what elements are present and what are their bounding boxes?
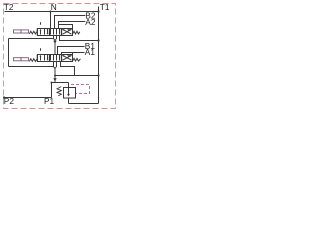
valve V2 right box cross (63, 29, 72, 34)
relief valve spring (57, 87, 61, 96)
wire relief junction horizontal (52, 82, 69, 84)
valve V2 left box arrows (41, 29, 48, 35)
valve V2 (upper spool) (37, 22, 80, 35)
wire valve2 centre to relief junction (54, 69, 56, 83)
svg-text:N: N (51, 2, 57, 12)
wire relief inlet drop (68, 83, 70, 88)
svg-text:A2: A2 (85, 17, 96, 27)
junction dots (3, 10, 100, 98)
wire N riser to valve 1 P port (50, 12, 52, 29)
valve V1 cross arrowheads (67, 55, 70, 57)
wire valve1 tank out to T1 riser (60, 36, 99, 41)
wire A1 port line (62, 53, 85, 55)
valve V1 left spring (29, 59, 37, 62)
wire A2 port line (59, 22, 86, 29)
svg-text:T2: T2 (4, 2, 14, 12)
wire P2 bottom line (4, 97, 52, 99)
valve V2 left box tick (40, 22, 42, 25)
relief valve internal arrow (68, 88, 70, 95)
valve V2 lever actuator (14, 30, 29, 33)
svg-text:A1: A1 (85, 47, 96, 57)
wire left gallery valve1 (9, 38, 54, 40)
wire B1 port line (58, 47, 85, 55)
valve V1 bridge to right box corner (72, 53, 74, 55)
flow arrow to relief junction (53, 78, 56, 81)
pilot line (dashed) (71, 85, 90, 94)
wire valve2 funnel (54, 62, 57, 69)
svg-text:T1: T1 (100, 2, 110, 12)
valve V1 envelope (38, 55, 73, 62)
valve V2 envelope (38, 29, 73, 36)
wire T2-T1 top line (5, 11, 99, 13)
wire valve2 tank jog (61, 62, 75, 76)
valve V2 centre box lines (51, 29, 60, 35)
wire B2 port line (55, 16, 86, 29)
wire T1 riser (98, 7, 100, 104)
valve V1 lever actuator (14, 58, 29, 61)
relief valve body (64, 88, 76, 99)
valve V1 left box arrows (41, 55, 48, 61)
valve V1 right spring (73, 58, 81, 61)
wire relief return bottom (69, 103, 99, 105)
valve V2 left spring (29, 31, 37, 34)
valve V2 bridge to right box corner (59, 25, 73, 29)
wire left gallery valve2 (9, 66, 54, 68)
enclosure dashed boundary (4, 4, 116, 109)
valve V2 cross arrowheads (67, 29, 70, 31)
wire valve1 carryover funnel (54, 36, 57, 41)
wire P1 riser (51, 83, 53, 98)
valve V2 right spring (73, 31, 80, 34)
flow arrow on carryover (53, 41, 56, 44)
wire left gallery riser (8, 39, 10, 67)
relief valve arrowhead (67, 94, 70, 97)
wire relief outlet drop (68, 98, 70, 104)
valve V1 left box tick (40, 48, 42, 51)
valve V1 right box cross (63, 55, 72, 60)
relief valve RV1 (64, 88, 76, 99)
wire carryover to valve2 (54, 41, 56, 55)
valve V1 centre box lines (51, 55, 60, 61)
valve V1 (lower spool) (37, 48, 80, 61)
wire tank line to T1 riser (55, 75, 99, 77)
